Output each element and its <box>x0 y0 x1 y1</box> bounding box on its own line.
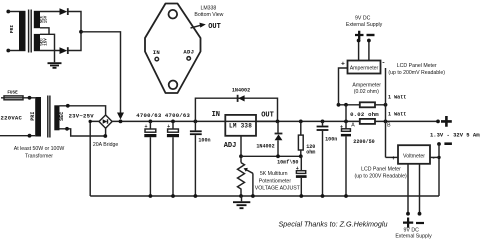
wire ADJ node line <box>241 155 301 157</box>
ground (main) <box>241 196 243 201</box>
svg-text:LCD Panel Meter: LCD Panel Meter <box>397 63 437 69</box>
diode D3 1N4002 (reverse protection) <box>237 95 239 102</box>
svg-text:SEC: SEC <box>59 112 65 121</box>
aux transformer primary winding bar <box>19 11 26 51</box>
svg-text:PRI: PRI <box>30 112 36 121</box>
wire OUT to rail <box>256 120 278 122</box>
wire aux secondary top to diode <box>40 11 60 13</box>
wire secondary bottom to bridge <box>60 128 106 136</box>
node aux rectifier output <box>79 30 83 34</box>
node ADJ junction <box>239 154 243 158</box>
main transformer secondary bar <box>54 105 59 130</box>
svg-text:ADJ: ADJ <box>224 142 237 150</box>
svg-text:Ampermeter: Ampermeter <box>352 83 381 89</box>
svg-text:100n: 100n <box>325 137 337 143</box>
wire bridge negative to bottom rail <box>90 121 99 196</box>
wire mains top <box>1 97 35 99</box>
node bridge AC bottom <box>103 134 107 138</box>
aux transformer core <box>29 10 32 53</box>
wire mains bottom <box>0 135 35 137</box>
svg-text:4700/63: 4700/63 <box>165 112 191 119</box>
svg-text:1.3V - 32V 5 Amp: 1.3V - 32V 5 Amp <box>430 132 480 139</box>
node A to shunt <box>344 103 348 107</box>
bridge inner diode mark <box>103 119 108 123</box>
svg-text:Ampermeter: Ampermeter <box>350 65 379 71</box>
svg-text:15V: 15V <box>45 38 49 46</box>
main transformer core <box>48 96 50 138</box>
main transformer primary bar <box>35 97 41 137</box>
svg-text:-: - <box>432 155 436 162</box>
svg-text:External Supply: External Supply <box>395 234 432 240</box>
node mains bottom to primary <box>28 134 32 138</box>
wire voltmeter minus lead <box>430 156 439 158</box>
node B on shunt row <box>384 103 388 107</box>
resistor R3 0.02 ohm shunt <box>360 102 375 107</box>
shunt row wire <box>339 104 386 106</box>
node ammeter supply minus <box>367 39 371 43</box>
wire ammeter supply stubs <box>359 41 369 61</box>
symbol - 9V top <box>367 34 375 36</box>
svg-text:Voltmeter: Voltmeter <box>403 154 425 160</box>
wire secondary top to bridge <box>60 106 106 115</box>
LM338 TO-3 package outline (bottom view) <box>145 4 201 94</box>
svg-text:(up to 200V Readable): (up to 200V Readable) <box>354 174 406 180</box>
wire protection diode top run <box>195 98 277 121</box>
svg-text:ohm: ohm <box>306 150 315 156</box>
arrow to OUT (case) <box>191 25 202 28</box>
wire aux primary top lead <box>8 11 19 13</box>
node B <box>384 120 388 124</box>
wire main positive rail <box>112 120 438 122</box>
svg-text:IN: IN <box>153 49 160 56</box>
symbol - output <box>444 142 452 145</box>
svg-text:20A Bridge: 20A Bridge <box>93 142 118 148</box>
voltmeter M2 box <box>398 145 430 164</box>
svg-text:0.02 ohm: 0.02 ohm <box>350 111 379 118</box>
svg-text:220VAC: 220VAC <box>1 115 23 122</box>
svg-text:Bottom View: Bottom View <box>194 12 223 18</box>
svg-text:23V~25V: 23V~25V <box>69 113 95 120</box>
svg-text:2200/50: 2200/50 <box>353 139 374 145</box>
node voltmeter supply minus <box>418 212 422 216</box>
wire bottom ground rail <box>90 195 439 197</box>
TO-3 top mounting hole <box>169 10 178 19</box>
regulator U1 LM338 box <box>225 115 256 136</box>
resistor R1 120 ohm <box>299 120 303 124</box>
svg-text:IN: IN <box>212 111 220 119</box>
wire aux primary bottom lead <box>8 50 19 52</box>
ampermeter M1 box <box>348 61 381 74</box>
svg-text:At least 50W or 100W: At least 50W or 100W <box>14 146 65 152</box>
svg-text:OUT: OUT <box>261 112 274 120</box>
node shunt left meter tap <box>337 103 341 107</box>
TO-3 pin IN <box>155 57 159 61</box>
diode D4 1N4002 (ADJ protection) <box>277 121 279 132</box>
wire aux center tap <box>40 28 55 63</box>
wire ADJ lead <box>240 136 242 157</box>
aux transformer left terminal bottom <box>6 49 10 53</box>
node aux feed junction <box>119 120 123 124</box>
wire voltmeter plus lead <box>386 156 399 158</box>
potentiometer P1 5K <box>240 156 242 162</box>
svg-text:10mf\50: 10mf\50 <box>277 160 298 166</box>
arrowhead onto main bus <box>117 113 124 120</box>
capacitor C1 4700/63 <box>149 120 153 124</box>
svg-text:15V: 15V <box>45 15 49 23</box>
capacitor C3 100n <box>194 120 198 124</box>
svg-text:+: + <box>391 155 395 162</box>
node voltmeter minus tap <box>437 156 440 159</box>
capacitor C6 2200/50 <box>345 121 347 128</box>
wire D2 cathode to junction <box>68 32 81 51</box>
TO-3 bottom mounting hole <box>169 81 178 90</box>
svg-text:B: B <box>387 123 391 129</box>
diode D1 aux top <box>60 8 68 15</box>
svg-text:PRI: PRI <box>9 25 15 34</box>
diode D2 aux bottom <box>60 47 68 54</box>
svg-text:External Supply: External Supply <box>346 22 383 28</box>
pot wiper <box>246 170 253 174</box>
svg-text:Transformer: Transformer <box>25 153 53 159</box>
node secondary bottom <box>65 127 69 131</box>
bridge rectifier B1 diamond <box>99 115 112 128</box>
node voltmeter supply plus <box>406 212 410 216</box>
symbol + 9V top <box>355 31 364 39</box>
svg-text:1N4002: 1N4002 <box>232 88 250 94</box>
node A <box>344 120 348 124</box>
svg-text:4700/63: 4700/63 <box>136 112 162 119</box>
wire voltmeter supply stubs <box>408 164 420 214</box>
wire node B vertical <box>385 68 387 157</box>
svg-text:5K Multiturn: 5K Multiturn <box>260 171 288 177</box>
svg-text:FUSE: FUSE <box>7 90 18 95</box>
TO-3 pin ADJ <box>187 57 191 61</box>
svg-text:LM 338: LM 338 <box>229 122 252 129</box>
svg-text:9V DC: 9V DC <box>404 227 420 233</box>
capacitor C2 4700/63 <box>171 120 175 124</box>
wire ammeter plus lead <box>339 68 348 105</box>
resistor R2 0.02 ohm sense <box>360 119 375 124</box>
node output plus <box>436 120 440 124</box>
node ammeter supply plus <box>357 39 361 43</box>
wire aux secondary bottom to diode <box>40 50 60 52</box>
ground (aux center tap) <box>48 63 62 68</box>
node output minus <box>437 142 441 146</box>
svg-text:(0.02 ohm): (0.02 ohm) <box>354 89 379 95</box>
svg-text:LCD Panel Meter: LCD Panel Meter <box>361 167 401 173</box>
wire D1 cathode to junction <box>68 12 81 32</box>
node OUT junction <box>276 120 280 124</box>
symbol - 9V bottom <box>416 222 424 224</box>
svg-text:+: + <box>341 60 345 67</box>
svg-text:1 Watt: 1 Watt <box>388 111 406 117</box>
capacitor C5 100n <box>321 120 325 124</box>
symbol + 9V bottom <box>403 218 413 228</box>
aux secondary winding upper bar <box>34 11 40 28</box>
capacitor C4 10mf/50 <box>300 156 302 170</box>
svg-text:-: - <box>382 59 386 66</box>
fuse body <box>4 96 23 100</box>
aux secondary winding lower bar <box>34 34 40 51</box>
wire output minus vertical <box>438 144 440 196</box>
svg-text:LM338: LM338 <box>200 5 216 11</box>
symbol + output <box>441 116 452 127</box>
svg-text:A: A <box>351 123 355 129</box>
node secondary top <box>66 104 70 108</box>
svg-text:OUT: OUT <box>208 23 221 31</box>
aux transformer left terminal top <box>6 10 10 14</box>
svg-text:VOLTAGE ADJUST: VOLTAGE ADJUST <box>255 186 301 192</box>
node bridge negative corner <box>89 120 92 123</box>
svg-text:1N4002: 1N4002 <box>256 144 274 150</box>
node fuse to primary <box>28 96 32 100</box>
svg-text:(up to 200mV Readable): (up to 200mV Readable) <box>388 70 445 76</box>
wire aux output to main bus <box>81 32 121 113</box>
svg-text:100n: 100n <box>198 138 210 144</box>
svg-text:Special Thanks to: Z.G.Hekimog: Special Thanks to: Z.G.Hekimoglu <box>278 220 387 229</box>
svg-text:9V DC: 9V DC <box>355 16 371 22</box>
svg-text:1 Watt: 1 Watt <box>388 94 406 100</box>
svg-text:Potentiometer: Potentiometer <box>259 178 292 184</box>
svg-text:ADJ: ADJ <box>183 48 194 55</box>
